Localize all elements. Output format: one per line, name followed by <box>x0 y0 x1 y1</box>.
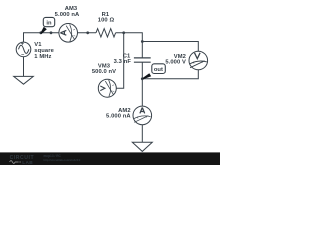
svg-text:5.000 V: 5.000 V <box>165 60 186 66</box>
svg-text:mcp13 / RC: mcp13 / RC <box>44 154 62 158</box>
svg-text:500.0 nV: 500.0 nV <box>92 69 116 75</box>
svg-text:5.000 nA: 5.000 nA <box>106 114 131 120</box>
svg-text:LAB: LAB <box>22 160 33 165</box>
svg-text:100 Ω: 100 Ω <box>98 18 115 24</box>
svg-text:5.000 nA: 5.000 nA <box>55 12 80 18</box>
svg-text:in: in <box>46 21 52 27</box>
svg-text:http://circuitlab.com/c/s2cfrd: http://circuitlab.com/c/s2cfrd <box>44 158 81 162</box>
svg-text:1 MHz: 1 MHz <box>34 54 51 60</box>
svg-text:3.3 nF: 3.3 nF <box>114 59 132 65</box>
svg-text:out: out <box>154 67 163 73</box>
